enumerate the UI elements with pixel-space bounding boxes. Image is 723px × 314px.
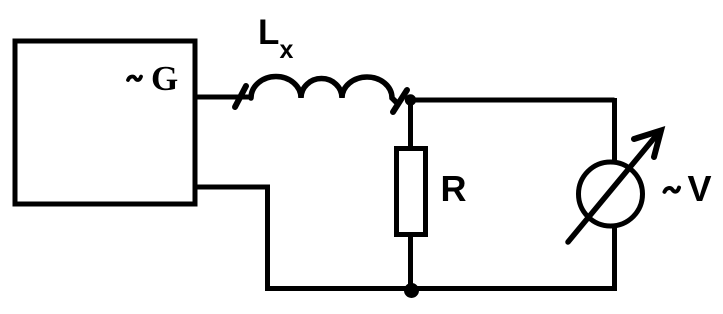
svg-text:R: R bbox=[441, 168, 467, 209]
tick mark at inductor right lead bbox=[393, 90, 407, 112]
wire: node A to voltmeter branch (top right horizontal) bbox=[410, 98, 615, 103]
wire: voltmeter bottom lead up to meter bbox=[612, 224, 617, 291]
wire: resistor bottom to node B bbox=[408, 234, 413, 290]
inductor Lx coil bbox=[251, 76, 397, 103]
node B: bottom junction dot bbox=[404, 283, 419, 298]
wire: node A down to resistor top bbox=[408, 100, 413, 149]
svg-text:V: V bbox=[688, 168, 712, 209]
node A: top junction dot bbox=[405, 94, 416, 105]
resistor R body bbox=[397, 149, 426, 235]
wire: voltmeter branch vertical down to meter bbox=[612, 98, 617, 161]
svg-text:x: x bbox=[280, 36, 294, 64]
svg-text:G: G bbox=[151, 59, 178, 98]
label ~ (tilde of ~ G) bbox=[128, 77, 141, 80]
voltmeter arrow shaft bbox=[568, 137, 655, 242]
wire: generator bottom output, down-and-right return path bbox=[195, 187, 268, 289]
wire: bottom return rail bbox=[265, 286, 615, 291]
voltmeter V circle bbox=[579, 162, 643, 226]
generator box G bbox=[15, 41, 195, 204]
voltmeter arrow head bbox=[634, 131, 661, 158]
label ~ (tilde of ~ V) bbox=[665, 188, 680, 192]
wire: generator top output to inductor bbox=[195, 95, 252, 100]
svg-text:L: L bbox=[258, 13, 279, 52]
tick mark at inductor left lead bbox=[235, 86, 246, 107]
